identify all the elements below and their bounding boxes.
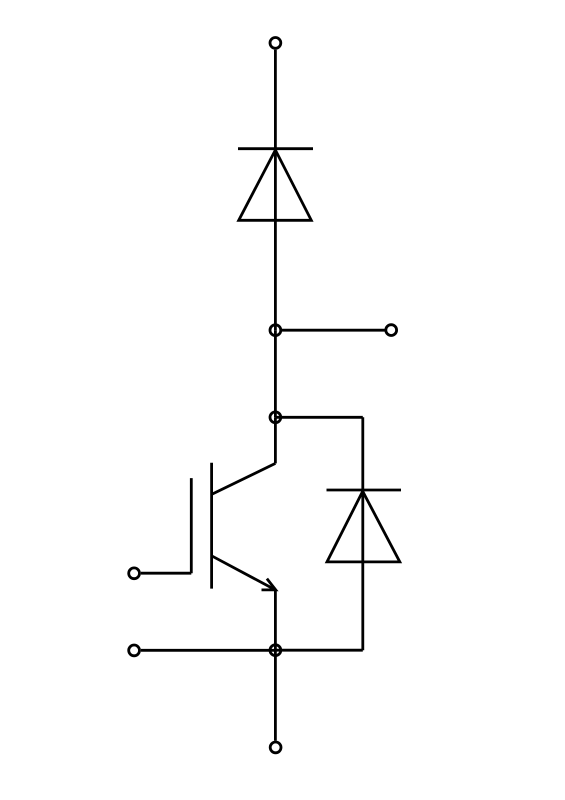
wire gate lead T3 to Q1 gate bar [141,572,191,575]
wire right branch bottom to node N3 [275,649,362,652]
wire N2 to right branch corner [275,416,362,419]
wire N2 to collector corner (vertical) [274,417,277,463]
diode D1 (series diode, cathode up) [238,149,313,221]
terminal T1 (top collector terminal) [270,38,281,49]
node N3 [270,645,281,656]
terminal T3 (gate terminal) [129,568,140,579]
wire right branch vertical (through diode D2) [361,417,364,650]
transistor Q1 body bar [210,463,213,589]
node N1 [270,325,281,336]
terminal T5 (bottom emitter terminal) [270,742,281,753]
transistor Q1 emitter arrowhead [262,579,276,590]
wire terminal T4 to node N3 [141,649,276,652]
node N2 [270,412,281,423]
wire T1 to node N1 (vertical, through diode D1) [274,50,277,331]
transistor Q1 emitter lead [212,556,276,590]
wire N1 to node N2 (vertical) [274,330,277,417]
wire N1 to terminal T2 [282,329,385,332]
transistor Q1 collector lead [212,463,276,494]
terminal T4 (bottom-left emitter terminal) [129,645,140,656]
terminal T2 (right tap terminal) [386,325,397,336]
diode D2 (freewheeling diode, cathode up) [327,490,402,562]
transistor Q1 (IGBT) [191,463,275,590]
wire emitter to terminal T5 (vertical, through node N3) [274,590,277,741]
transistor Q1 gate bar [190,478,193,573]
